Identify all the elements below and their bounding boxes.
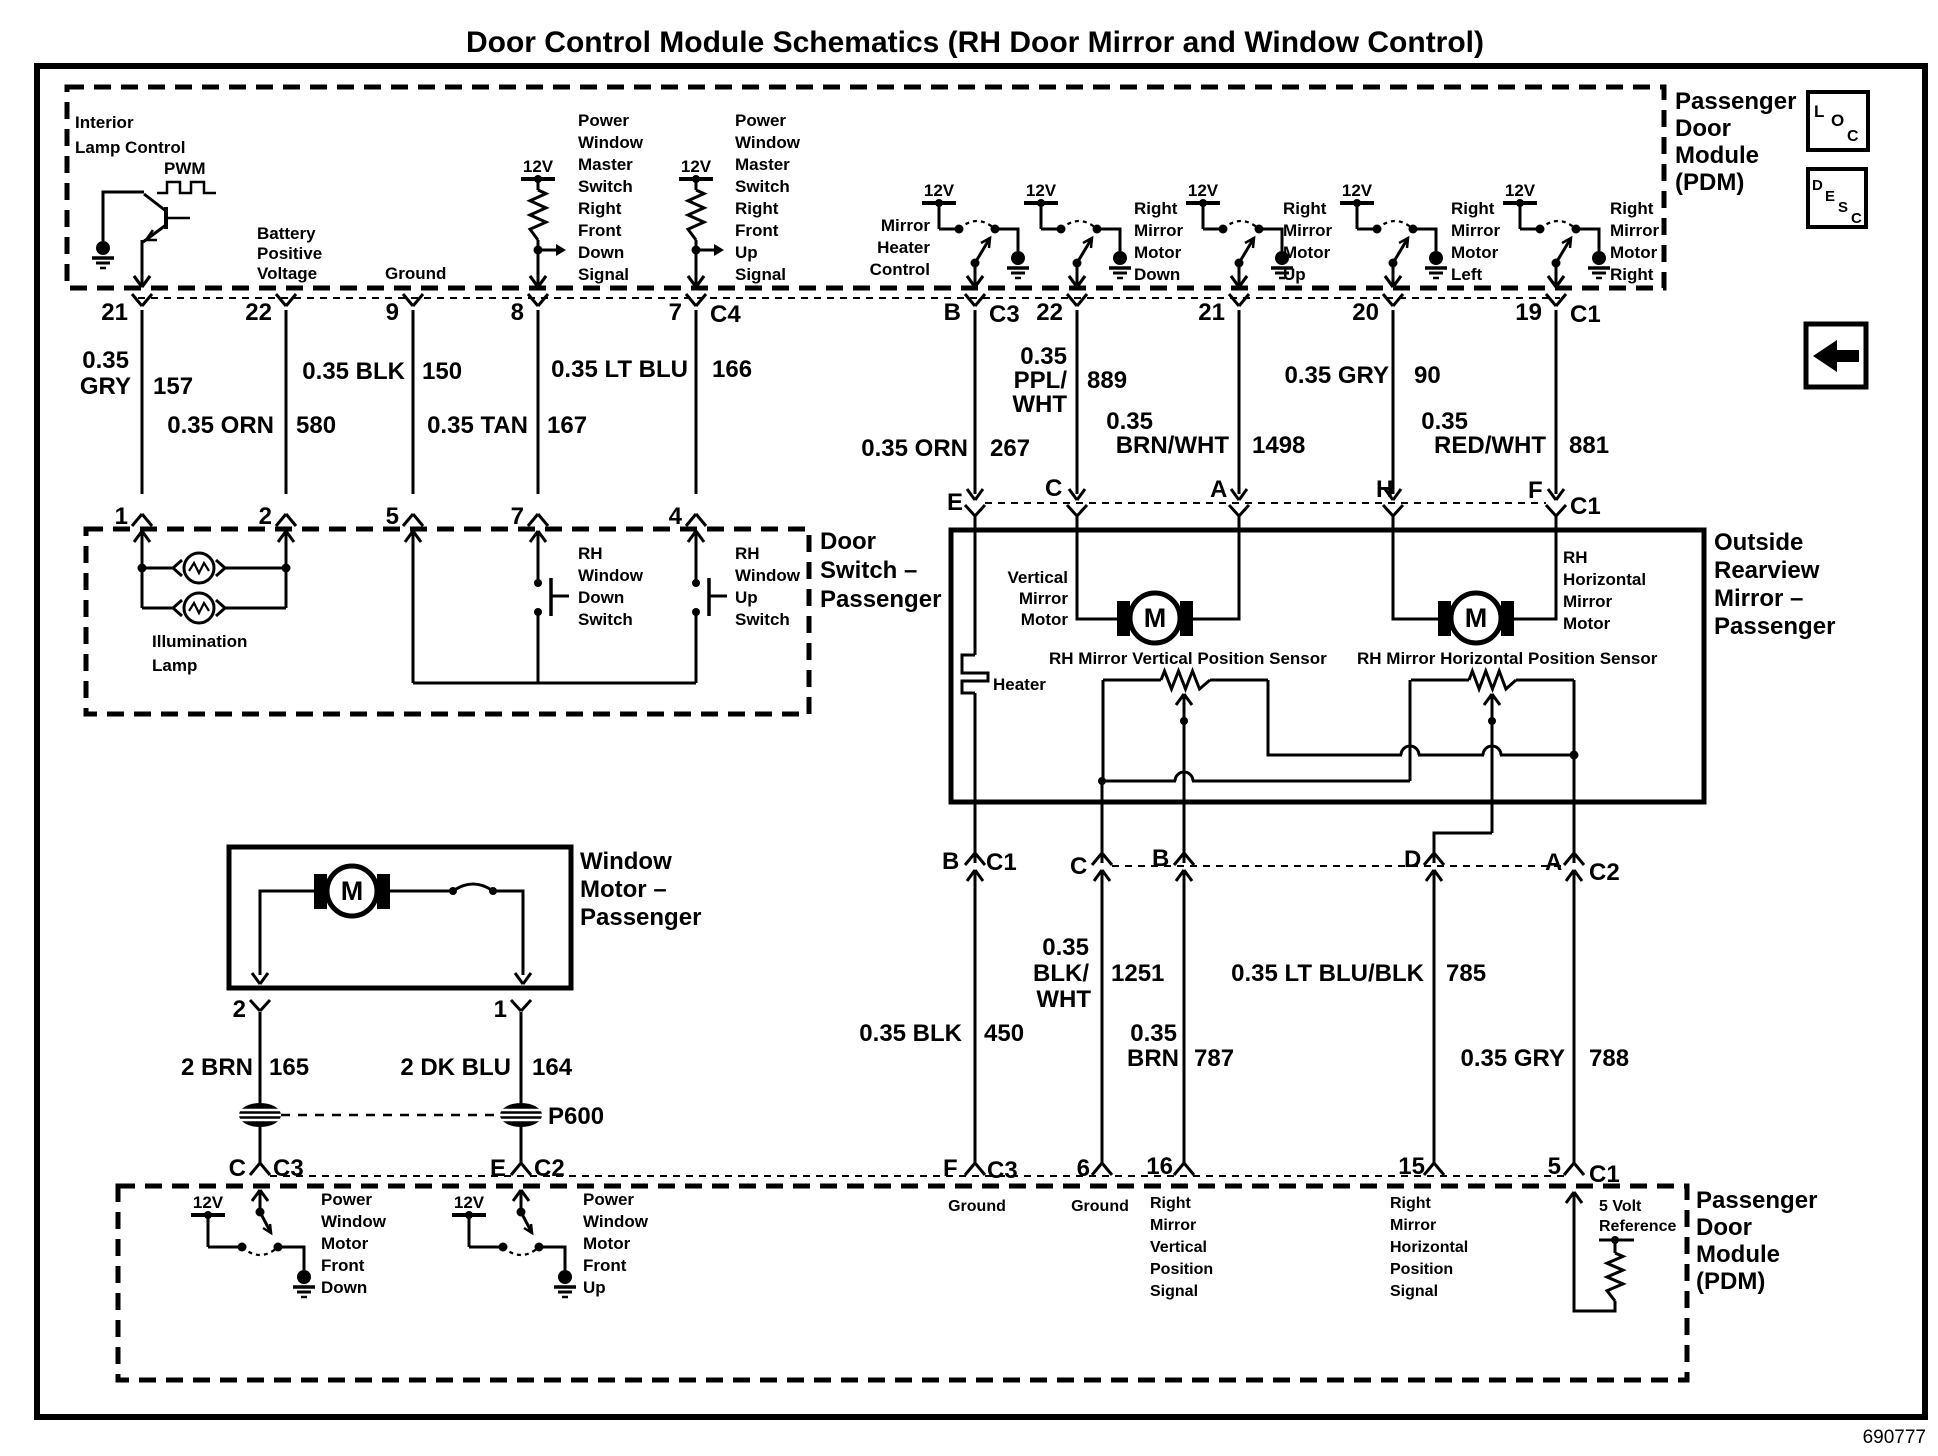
svg-text:Power: Power xyxy=(735,111,786,130)
svg-text:0.35 ORN: 0.35 ORN xyxy=(167,412,274,439)
wire up-switch to bus xyxy=(695,612,698,683)
wire 0.35 RED/WHT 881 xyxy=(1555,310,1558,494)
svg-text:C3: C3 xyxy=(989,301,1020,328)
svg-text:Door: Door xyxy=(820,528,876,555)
svg-text:Switch: Switch xyxy=(578,177,633,196)
svg-text:889: 889 xyxy=(1087,367,1127,394)
svg-text:BRN/WHT: BRN/WHT xyxy=(1116,432,1230,459)
pin 22 row A xyxy=(276,294,286,306)
svg-text:C4: C4 xyxy=(710,301,741,328)
illumination lamp 1 xyxy=(138,564,147,573)
pin 21 row A xyxy=(1229,294,1239,306)
svg-text:B: B xyxy=(944,299,961,326)
svg-text:Switch: Switch xyxy=(735,610,790,629)
svg-text:Front: Front xyxy=(321,1256,365,1275)
wire 0.35 ORN 580 xyxy=(285,310,288,494)
svg-text:5: 5 xyxy=(1548,1153,1561,1180)
wire 0.35 LT BLU 166 xyxy=(695,310,698,494)
svg-text:Front: Front xyxy=(735,221,779,240)
wire collector top xyxy=(103,192,144,241)
svg-text:L: L xyxy=(1814,102,1824,121)
wire 0.35 TAN 167 xyxy=(537,310,540,494)
svg-text:B: B xyxy=(942,848,959,875)
DESC button box xyxy=(1808,169,1866,227)
pin 1 door switch xyxy=(132,514,142,526)
svg-text:Motor: Motor xyxy=(321,1234,369,1253)
pin E row B xyxy=(965,505,975,516)
hop over horizontal wiper xyxy=(1483,746,1501,755)
Passenger Door Module (PDM) top dashed box xyxy=(67,87,1664,288)
svg-text:Voltage: Voltage xyxy=(257,264,317,283)
wire 0.35 BLK/WHT 1251 xyxy=(1101,870,1104,1164)
svg-text:Up: Up xyxy=(583,1278,606,1297)
svg-text:21: 21 xyxy=(101,299,128,326)
5 volt reference wire xyxy=(1566,1192,1574,1203)
svg-text:RH Mirror Vertical Position Se: RH Mirror Vertical Position Sensor xyxy=(1049,649,1327,668)
svg-text:2: 2 xyxy=(259,503,272,530)
svg-text:6: 6 xyxy=(1077,1155,1090,1182)
svg-text:Right: Right xyxy=(1610,199,1654,218)
svg-text:9: 9 xyxy=(386,299,399,326)
svg-text:PPL/: PPL/ xyxy=(1014,367,1068,394)
svg-text:2 DK BLU: 2 DK BLU xyxy=(400,1054,511,1081)
svg-text:WHT: WHT xyxy=(1012,391,1067,418)
svg-text:Signal: Signal xyxy=(578,265,629,284)
svg-text:Heater: Heater xyxy=(877,238,930,257)
Outside Rearview Mirror - Passenger box xyxy=(951,530,1704,802)
wire pin1 to lamps xyxy=(141,531,144,568)
wire H into box to motor2 xyxy=(1393,515,1444,619)
svg-text:Ground: Ground xyxy=(1071,1198,1129,1215)
svg-text:E: E xyxy=(490,1155,506,1182)
svg-text:20: 20 xyxy=(1352,299,1379,326)
RH horizontal mirror motor xyxy=(1438,601,1451,636)
svg-text:150: 150 xyxy=(422,358,462,385)
svg-text:0.35: 0.35 xyxy=(1130,1020,1177,1047)
svg-text:M: M xyxy=(1465,603,1488,633)
svg-text:B: B xyxy=(1152,845,1169,872)
wire heater down to pin B xyxy=(974,693,977,863)
pin 5 door switch xyxy=(403,514,413,526)
wire vertical-sensor-left to pin C xyxy=(1101,779,1104,863)
transistor Q1 emitter with arrow xyxy=(143,225,166,242)
LOC button box xyxy=(1808,92,1868,150)
svg-text:(PDM): (PDM) xyxy=(1696,1268,1765,1295)
RH window down switch xyxy=(537,531,540,583)
pin H row B xyxy=(1383,505,1393,516)
svg-text:Window: Window xyxy=(580,848,672,875)
svg-text:(PDM): (PDM) xyxy=(1675,169,1744,196)
svg-text:Motor: Motor xyxy=(1610,243,1658,262)
svg-text:Power: Power xyxy=(578,111,629,130)
svg-text:Mirror: Mirror xyxy=(881,216,931,235)
svg-text:690777: 690777 xyxy=(1863,1427,1926,1448)
svg-text:GRY: GRY xyxy=(80,373,131,400)
PWM waveform xyxy=(157,182,216,193)
pin B row C xyxy=(1174,853,1184,865)
svg-text:0.35: 0.35 xyxy=(1020,343,1067,370)
vertical sensor wiper xyxy=(1176,694,1184,705)
wire 2 DK BLU 164 xyxy=(520,1012,523,1103)
svg-text:RH: RH xyxy=(735,544,760,563)
pin 8 row A xyxy=(528,294,538,306)
pin E connector C2 row D xyxy=(511,1163,521,1175)
svg-text:Motor: Motor xyxy=(583,1234,631,1253)
window motor right wire down xyxy=(493,891,523,975)
svg-text:2 BRN: 2 BRN xyxy=(181,1054,253,1081)
svg-text:Reference: Reference xyxy=(1599,1218,1676,1235)
vertical sensor right step xyxy=(1268,680,1402,755)
pin 15 row D xyxy=(1424,1163,1434,1175)
svg-text:C1: C1 xyxy=(1589,1161,1620,1188)
svg-text:Door Control Module Schematics: Door Control Module Schematics (RH Door … xyxy=(466,26,1484,59)
vertical sensor left leg xyxy=(1102,680,1105,779)
connector row C dashed line xyxy=(1112,865,1566,867)
svg-text:22: 22 xyxy=(245,299,272,326)
svg-text:12V: 12V xyxy=(681,157,712,176)
svg-text:881: 881 xyxy=(1569,432,1609,459)
svg-text:Right: Right xyxy=(578,199,622,218)
wire P600 to pin E xyxy=(520,1127,523,1164)
svg-text:Position: Position xyxy=(1150,1261,1213,1278)
wire 0.35 GRY 788 xyxy=(1573,870,1576,1164)
svg-text:0.35 LT BLU/BLK: 0.35 LT BLU/BLK xyxy=(1231,960,1425,987)
svg-text:0.35 ORN: 0.35 ORN xyxy=(861,435,968,462)
svg-text:H: H xyxy=(1376,476,1393,503)
pin 7 connector C4 row A xyxy=(686,294,696,306)
pin 5 connector C1 row D xyxy=(1564,1163,1574,1175)
svg-text:C: C xyxy=(229,1155,246,1182)
wire lamp2 up to pin2 xyxy=(282,564,291,573)
svg-text:Passenger: Passenger xyxy=(580,904,701,931)
bottom Passenger Door Module dashed box xyxy=(118,1186,1687,1380)
svg-text:C1: C1 xyxy=(1570,493,1601,520)
svg-text:157: 157 xyxy=(153,373,193,400)
svg-text:Front: Front xyxy=(583,1256,627,1275)
svg-text:Motor: Motor xyxy=(1134,243,1182,262)
svg-text:22: 22 xyxy=(1036,299,1063,326)
pin 21 row A xyxy=(132,294,142,306)
pin B connector C3 row A xyxy=(965,294,975,306)
svg-text:165: 165 xyxy=(269,1054,309,1081)
svg-text:C1: C1 xyxy=(986,849,1017,876)
svg-text:Window: Window xyxy=(578,133,644,152)
svg-text:Mirror: Mirror xyxy=(1134,221,1184,240)
svg-text:C2: C2 xyxy=(534,1155,565,1182)
svg-text:Master: Master xyxy=(578,155,633,174)
svg-text:Outside: Outside xyxy=(1714,529,1803,556)
switch common bus wire xyxy=(413,682,696,685)
svg-text:Control: Control xyxy=(870,260,930,279)
svg-text:12V: 12V xyxy=(1342,181,1373,200)
svg-text:0.35: 0.35 xyxy=(1106,408,1153,435)
RH window up switch xyxy=(695,531,698,583)
P600 dashed link xyxy=(281,1114,500,1117)
svg-text:D: D xyxy=(1812,177,1823,194)
svg-text:15: 15 xyxy=(1398,1153,1425,1180)
pin 9 row A xyxy=(403,294,413,306)
svg-text:Right: Right xyxy=(1150,1195,1192,1212)
pin 1 window motor xyxy=(511,1000,521,1011)
pin D row C xyxy=(1424,853,1434,865)
inline connector P600 right xyxy=(500,1103,542,1127)
circuit breaker hump xyxy=(453,884,493,891)
svg-text:RED/WHT: RED/WHT xyxy=(1434,432,1546,459)
svg-text:O: O xyxy=(1831,111,1844,130)
svg-text:Module: Module xyxy=(1675,142,1759,169)
svg-text:Right: Right xyxy=(1451,199,1495,218)
svg-text:C3: C3 xyxy=(987,1157,1018,1184)
svg-text:12V: 12V xyxy=(1188,181,1219,200)
svg-text:0.35: 0.35 xyxy=(1042,934,1089,961)
svg-text:Down: Down xyxy=(578,243,624,262)
svg-text:Mirror: Mirror xyxy=(1150,1217,1196,1234)
connector row A dashed line xyxy=(138,297,1560,299)
svg-text:Master: Master xyxy=(735,155,790,174)
pin 20 row A xyxy=(1383,294,1393,306)
pin C connector C3 row D xyxy=(250,1163,260,1175)
signal direction arrow down xyxy=(538,249,562,252)
svg-text:Horizontal: Horizontal xyxy=(1563,570,1646,589)
svg-text:8: 8 xyxy=(511,299,524,326)
wire pin5 down xyxy=(412,531,415,683)
svg-text:Battery: Battery xyxy=(257,224,316,243)
svg-text:785: 785 xyxy=(1446,960,1486,987)
svg-text:0.35 GRY: 0.35 GRY xyxy=(1285,362,1390,389)
connector row B dashed line xyxy=(985,502,1546,504)
svg-text:Ground: Ground xyxy=(385,264,446,283)
pin 16 row D xyxy=(1174,1163,1184,1175)
RH mirror vertical position sensor resistor xyxy=(1103,679,1161,682)
svg-text:S: S xyxy=(1838,199,1848,216)
svg-text:Signal: Signal xyxy=(1390,1283,1438,1300)
svg-text:Mirror: Mirror xyxy=(1610,221,1660,240)
pin 7 door switch xyxy=(528,514,538,526)
pin F row B xyxy=(1546,505,1556,516)
wire C into box to motor xyxy=(1077,515,1127,619)
svg-text:Signal: Signal xyxy=(1150,1283,1198,1300)
svg-text:Power: Power xyxy=(583,1190,634,1209)
svg-text:0.35 GRY: 0.35 GRY xyxy=(1461,1045,1566,1072)
svg-text:167: 167 xyxy=(547,412,587,439)
svg-text:Down: Down xyxy=(1134,265,1180,284)
svg-text:Lamp Control: Lamp Control xyxy=(75,138,186,157)
svg-text:Window: Window xyxy=(583,1212,649,1231)
svg-text:Module: Module xyxy=(1696,1241,1780,1268)
svg-text:Right: Right xyxy=(735,199,779,218)
hop over horizontal-sensor leg xyxy=(1401,746,1419,755)
wire 2 BRN 165 xyxy=(259,1012,262,1103)
svg-text:Down: Down xyxy=(578,588,624,607)
window motor xyxy=(314,874,327,909)
horizontal sensor right leg xyxy=(1573,680,1576,755)
svg-text:BRN: BRN xyxy=(1127,1045,1179,1072)
svg-text:A: A xyxy=(1210,476,1227,503)
connector row D dashed line xyxy=(270,1175,1566,1177)
svg-text:Switch –: Switch – xyxy=(820,557,917,584)
svg-text:Heater: Heater xyxy=(993,675,1046,694)
illumination lamp 2 xyxy=(142,607,173,610)
pin 19 connector C1 row A xyxy=(1546,294,1556,306)
wire 0.35 GRY 157 xyxy=(141,310,144,494)
svg-text:Door: Door xyxy=(1675,115,1731,142)
svg-text:Position: Position xyxy=(1390,1261,1453,1278)
svg-text:Down: Down xyxy=(321,1278,367,1297)
svg-text:WHT: WHT xyxy=(1036,986,1091,1013)
svg-text:Window: Window xyxy=(735,566,801,585)
svg-text:Right: Right xyxy=(1610,265,1654,284)
svg-text:0.35: 0.35 xyxy=(82,347,129,374)
wire 0.35 BLK 150 xyxy=(412,310,415,494)
wire resistor down to pin xyxy=(537,240,540,284)
signal direction arrow up xyxy=(696,249,720,252)
pin 4 door switch xyxy=(686,514,696,526)
svg-text:12V: 12V xyxy=(523,157,554,176)
pin A connector C2 row C xyxy=(1564,853,1574,865)
Door Switch - Passenger dashed box xyxy=(86,529,809,714)
Window Motor - Passenger box xyxy=(229,847,571,988)
svg-text:C3: C3 xyxy=(273,1155,304,1182)
svg-text:Door: Door xyxy=(1696,1214,1752,1241)
svg-text:5 Volt: 5 Volt xyxy=(1599,1198,1642,1215)
svg-text:580: 580 xyxy=(296,412,336,439)
pin F connector C3 row D xyxy=(965,1163,975,1175)
svg-text:450: 450 xyxy=(984,1020,1024,1047)
svg-text:0.35 BLK: 0.35 BLK xyxy=(859,1020,962,1047)
svg-text:Motor: Motor xyxy=(1283,243,1331,262)
svg-text:Positive: Positive xyxy=(257,244,322,263)
svg-text:E: E xyxy=(1825,188,1835,205)
svg-text:Window: Window xyxy=(735,133,801,152)
svg-text:Mirror: Mirror xyxy=(1283,221,1333,240)
svg-text:Power: Power xyxy=(321,1190,372,1209)
svg-text:166: 166 xyxy=(712,356,752,383)
svg-text:0.35 BLK: 0.35 BLK xyxy=(302,358,405,385)
transistor Q1 base lead xyxy=(167,217,190,220)
svg-text:Mirror: Mirror xyxy=(1390,1217,1436,1234)
svg-text:RH: RH xyxy=(1563,548,1588,567)
wire emitter to pin 21 xyxy=(141,240,144,284)
resistor master switch down xyxy=(537,179,540,190)
svg-text:F: F xyxy=(943,1155,958,1182)
pin B connector C1 row C xyxy=(965,853,975,865)
svg-text:Vertical: Vertical xyxy=(1008,568,1069,587)
svg-text:Passenger: Passenger xyxy=(820,586,941,613)
svg-text:Interior: Interior xyxy=(75,113,134,132)
horizontal sensor wiper xyxy=(1484,694,1492,705)
wire 0.35 PPL/WHT 889 xyxy=(1076,310,1079,494)
svg-text:Switch: Switch xyxy=(735,177,790,196)
svg-text:Passenger: Passenger xyxy=(1696,1187,1817,1214)
wire E into box xyxy=(974,515,977,655)
svg-text:Front: Front xyxy=(578,221,622,240)
svg-text:Passenger: Passenger xyxy=(1714,613,1835,640)
svg-text:C1: C1 xyxy=(1570,301,1601,328)
svg-text:Horizontal: Horizontal xyxy=(1390,1239,1468,1256)
svg-text:Right: Right xyxy=(1283,199,1327,218)
back arrow button box xyxy=(1806,324,1866,387)
svg-text:Signal: Signal xyxy=(735,265,786,284)
wire sensor output A down xyxy=(1573,755,1576,863)
junction lower-left wire xyxy=(1098,777,1106,785)
5 volt reference resistor xyxy=(1607,1253,1623,1301)
svg-text:Motor: Motor xyxy=(1563,614,1611,633)
pin 6 row D xyxy=(1092,1163,1102,1175)
svg-text:164: 164 xyxy=(532,1054,573,1081)
transistor Q1 base bar xyxy=(164,207,168,229)
vertical mirror motor xyxy=(1117,601,1130,636)
pin A row B xyxy=(1229,505,1239,516)
svg-text:C: C xyxy=(1070,853,1087,880)
svg-text:PWM: PWM xyxy=(164,159,206,178)
wire 0.35 BLK 450 xyxy=(974,870,977,1164)
horizontal sensor left leg xyxy=(1409,680,1412,781)
ground at interior lamp control xyxy=(96,241,110,255)
wire resistor up to pin xyxy=(695,240,698,284)
wire 0.35 BRN 787 xyxy=(1183,870,1186,1164)
pin C row C xyxy=(1092,853,1102,865)
svg-text:Mirror: Mirror xyxy=(1019,589,1069,608)
svg-text:Up: Up xyxy=(735,588,758,607)
svg-text:RH: RH xyxy=(578,544,603,563)
wire P600 to pin C xyxy=(259,1127,262,1164)
svg-text:12V: 12V xyxy=(1026,181,1057,200)
svg-text:Lamp: Lamp xyxy=(152,656,197,675)
wire A into box to motor xyxy=(1183,515,1239,619)
svg-text:Ground: Ground xyxy=(948,1198,1006,1215)
window motor left wire xyxy=(260,891,327,975)
svg-text:4: 4 xyxy=(669,503,683,530)
pin 22 row A xyxy=(1067,294,1077,306)
svg-text:Window: Window xyxy=(578,566,644,585)
svg-text:Right: Right xyxy=(1390,1195,1432,1212)
svg-text:Illumination: Illumination xyxy=(152,632,247,651)
wire 0.35 BRN/WHT 1498 xyxy=(1238,310,1241,494)
svg-text:0.35 TAN: 0.35 TAN xyxy=(427,412,528,439)
svg-text:F: F xyxy=(1528,477,1543,504)
svg-text:BLK/: BLK/ xyxy=(1033,960,1089,987)
svg-text:7: 7 xyxy=(669,299,682,326)
svg-text:Mirror –: Mirror – xyxy=(1714,585,1803,612)
wire 0.35 ORN 267 xyxy=(974,310,977,494)
svg-text:Switch: Switch xyxy=(578,610,633,629)
svg-text:1251: 1251 xyxy=(1111,960,1164,987)
svg-text:RH Mirror Horizontal Position: RH Mirror Horizontal Position Sensor xyxy=(1357,649,1658,668)
svg-text:D: D xyxy=(1404,846,1421,873)
transistor Q1 collector xyxy=(144,194,166,211)
svg-text:21: 21 xyxy=(1198,299,1225,326)
svg-text:7: 7 xyxy=(511,503,524,530)
wire F into box to motor2 xyxy=(1508,515,1556,619)
svg-text:12V: 12V xyxy=(454,1193,485,1212)
svg-text:0.35 LT BLU: 0.35 LT BLU xyxy=(551,356,688,383)
svg-text:M: M xyxy=(1144,603,1167,633)
svg-text:Motor –: Motor – xyxy=(580,876,667,903)
svg-text:16: 16 xyxy=(1146,1153,1173,1180)
svg-text:Passenger: Passenger xyxy=(1675,88,1796,115)
svg-text:C2: C2 xyxy=(1589,859,1620,886)
svg-text:A: A xyxy=(1545,849,1562,876)
svg-text:12V: 12V xyxy=(924,181,955,200)
svg-text:Up: Up xyxy=(735,243,758,262)
svg-text:0.35: 0.35 xyxy=(1421,408,1468,435)
svg-text:1498: 1498 xyxy=(1252,432,1305,459)
svg-text:P600: P600 xyxy=(548,1103,604,1130)
svg-text:1: 1 xyxy=(494,996,507,1023)
svg-text:12V: 12V xyxy=(193,1193,224,1212)
svg-text:M: M xyxy=(341,876,364,906)
svg-text:Up: Up xyxy=(1283,265,1306,284)
